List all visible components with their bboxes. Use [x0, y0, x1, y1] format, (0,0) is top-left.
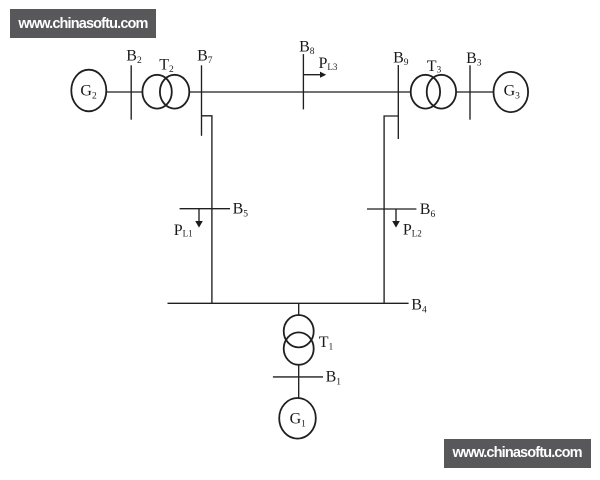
wire T1 to G1: [298, 365, 300, 398]
svg-text:B7: B7: [197, 48, 213, 67]
svg-text:B5: B5: [233, 201, 249, 220]
bus B4: [168, 302, 409, 304]
generator G2: [71, 70, 106, 112]
transformer T3: [411, 75, 440, 109]
svg-text:B8: B8: [299, 39, 315, 57]
svg-text:G2: G2: [80, 83, 97, 102]
svg-text:B3: B3: [466, 50, 482, 69]
bus B5: [180, 208, 230, 210]
bus B8: [302, 54, 304, 109]
wire B4 to T1: [298, 303, 300, 315]
wire G2 to T2: [106, 91, 143, 93]
bus B7: [201, 65, 203, 136]
wire T3 to G3: [456, 91, 494, 93]
arrowhead PL3: [320, 72, 326, 78]
svg-text:B9: B9: [393, 49, 409, 68]
svg-text:PL1: PL1: [174, 222, 193, 239]
svg-text:G1: G1: [290, 411, 307, 430]
svg-text:B4: B4: [411, 297, 427, 316]
svg-text:G3: G3: [504, 83, 521, 102]
wire jog right from B9: [384, 116, 398, 303]
svg-text:T1: T1: [319, 334, 334, 352]
svg-text:B1: B1: [326, 369, 342, 388]
transformer T1: [284, 315, 314, 347]
load arrow PL1: [198, 209, 200, 222]
svg-text:B2: B2: [126, 48, 142, 67]
transformer T2: [142, 75, 171, 109]
bus B3: [469, 65, 471, 119]
watermark bottom-right: [444, 439, 591, 468]
svg-text:T3: T3: [427, 58, 442, 76]
watermark top-left: [10, 9, 156, 38]
wire T2 to T3: [189, 91, 411, 93]
bus B6: [367, 208, 416, 210]
bus B2: [130, 65, 132, 119]
svg-text:PL3: PL3: [319, 55, 338, 72]
arrowhead PL1: [195, 221, 203, 228]
generator G3: [494, 72, 529, 112]
load arrow PL2: [395, 209, 397, 222]
arrowhead PL2: [392, 221, 400, 228]
bus B9: [397, 65, 399, 139]
svg-text:PL2: PL2: [403, 222, 422, 239]
generator G1: [279, 398, 316, 439]
svg-text:T2: T2: [159, 57, 174, 76]
wire jog left from B7: [202, 116, 212, 303]
bus B1: [273, 376, 323, 378]
load arrow PL3: [303, 74, 321, 76]
svg-text:B6: B6: [420, 201, 436, 220]
